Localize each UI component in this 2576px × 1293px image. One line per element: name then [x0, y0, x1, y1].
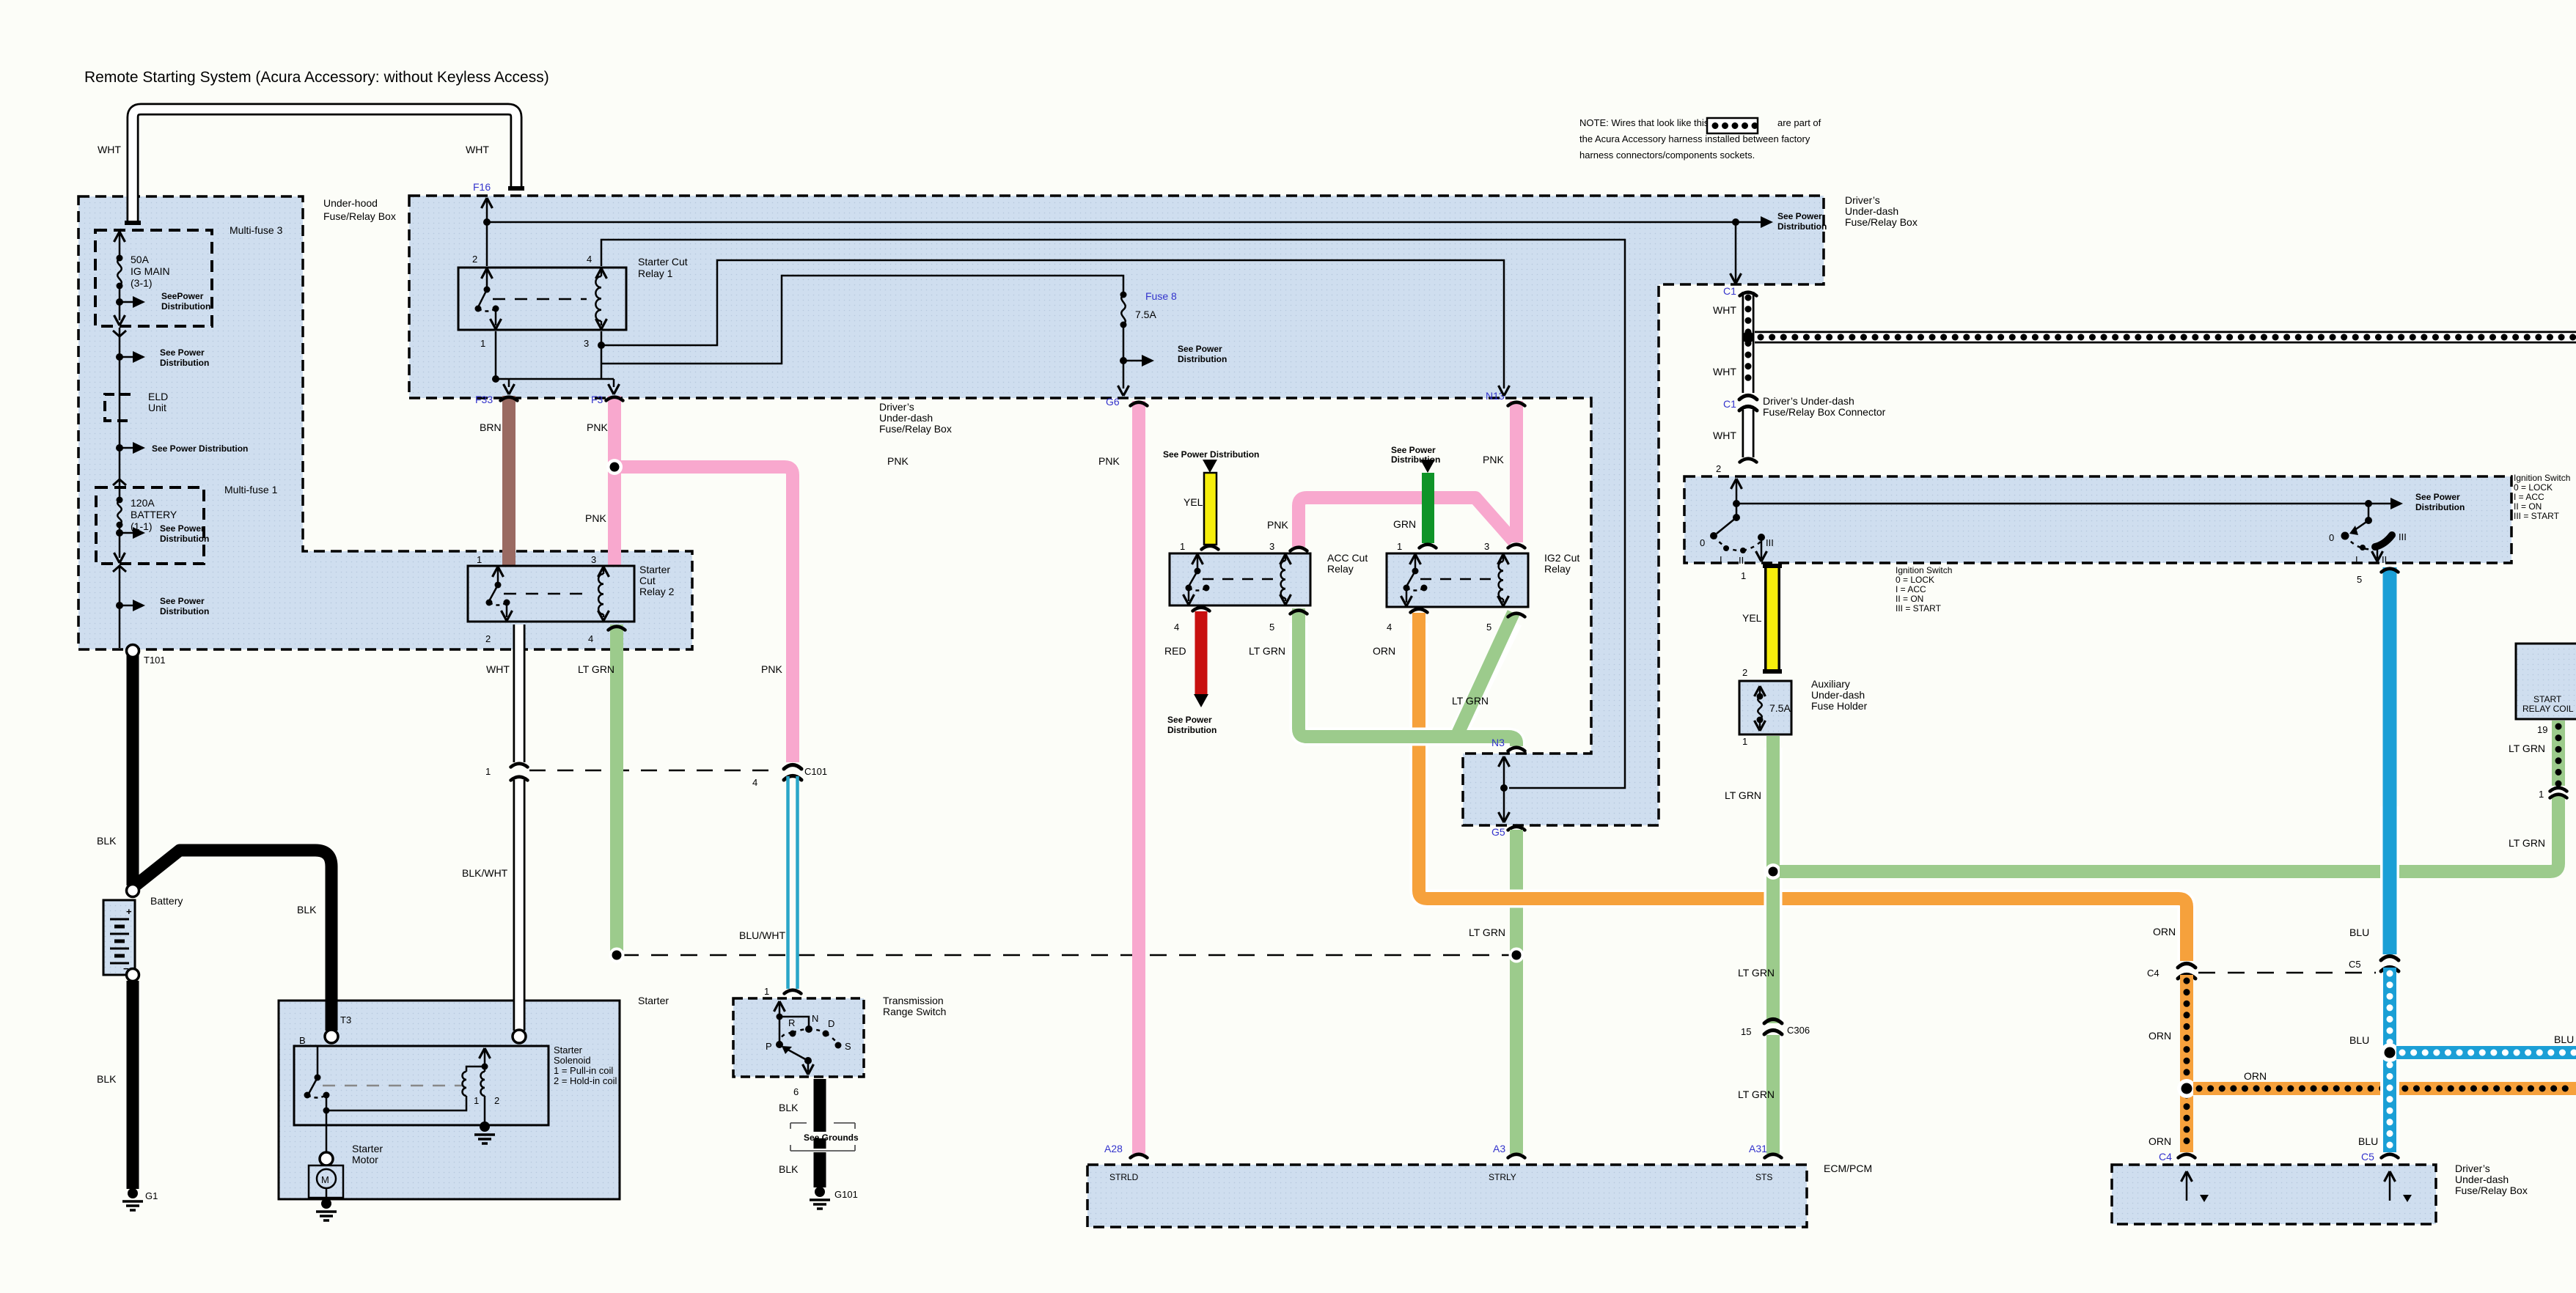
svg-text:NOTE: Wires that look like thi: NOTE: Wires that look like this [1579, 117, 1709, 128]
svg-text:ORN: ORN [2148, 1030, 2171, 1042]
svg-text:3: 3 [1484, 541, 1489, 552]
svg-text:T101: T101 [144, 655, 166, 666]
svg-text:II = ON: II = ON [1896, 594, 1923, 604]
wire BLU ignition switch pin 5 down to C5 [2349, 567, 2399, 954]
terminal T3 / B [325, 1030, 338, 1043]
svg-text:PNK: PNK [1483, 454, 1504, 465]
box: under-hood fuse/relay box (multi-fuse + starter cut relay 2 section) [78, 196, 692, 649]
svg-text:Range Switch: Range Switch [883, 1006, 946, 1017]
svg-text:G5: G5 [1491, 826, 1505, 838]
svg-text:1: 1 [1741, 570, 1746, 581]
svg-text:1 = Pull-in coil: 1 = Pull-in coil [554, 1065, 613, 1076]
svg-text:2: 2 [485, 633, 491, 644]
svg-text:2: 2 [472, 254, 477, 265]
svg-text:BLK: BLK [779, 1163, 799, 1175]
svg-text:C5: C5 [2349, 959, 2361, 970]
svg-text:ORN: ORN [2244, 1070, 2267, 1082]
svg-text:Fuse/Relay Box: Fuse/Relay Box [879, 423, 952, 435]
svg-text:See Grounds: See Grounds [804, 1132, 859, 1143]
svg-text:ORN: ORN [2153, 926, 2176, 937]
svg-text:See Power: See Power [160, 596, 205, 606]
wire BLK T101 to battery positive [97, 652, 133, 885]
svg-text:1: 1 [764, 986, 769, 997]
svg-text:WHT: WHT [466, 144, 489, 155]
svg-text:LT GRN: LT GRN [1738, 1088, 1775, 1100]
ELD unit [105, 391, 168, 422]
svg-text:II: II [1739, 555, 1744, 566]
svg-text:LT GRN: LT GRN [1452, 695, 1489, 707]
svg-text:III: III [2399, 531, 2407, 542]
svg-text:See Power: See Power [2415, 492, 2460, 502]
svg-text:B: B [299, 1035, 306, 1046]
svg-text:5: 5 [1486, 622, 1491, 633]
connector C5 (top) [2349, 957, 2399, 972]
svg-text:Under-dash: Under-dash [2455, 1174, 2509, 1185]
svg-text:F3: F3 [591, 394, 603, 405]
svg-text:0: 0 [2329, 532, 2334, 543]
svg-text:Distribution: Distribution [161, 301, 210, 312]
svg-text:A31: A31 [1749, 1143, 1767, 1154]
wire LT GRN ACC pin 5 + IG2 pin 5 junction to N3 [1249, 608, 1525, 751]
wire ORN dotted C4 to bottom box with junction [2148, 975, 2196, 1158]
svg-text:Relay: Relay [1327, 563, 1354, 575]
wire ORN IG2 pin 4 down and right to C4 [1373, 609, 2187, 961]
terminal T101 [127, 645, 139, 657]
svg-text:I = ACC: I = ACC [2514, 492, 2544, 502]
svg-text:3: 3 [591, 554, 596, 565]
svg-text:ORN: ORN [1373, 645, 1395, 657]
svg-text:BATTERY: BATTERY [131, 509, 177, 520]
svg-text:7.5A: 7.5A [1769, 702, 1791, 714]
box: starter [279, 1001, 620, 1199]
box: driver's under-dash fuse/relay box (bottom right) [2112, 1165, 2436, 1224]
svg-text:BLU: BLU [2358, 1135, 2378, 1147]
svg-text:LT GRN: LT GRN [1725, 789, 1761, 801]
ground at starter motor [321, 1198, 331, 1209]
svg-text:LT GRN: LT GRN [578, 663, 614, 675]
svg-text:C101: C101 [804, 766, 827, 777]
svg-text:2: 2 [494, 1095, 499, 1106]
relay: ACC cut relay [1170, 541, 1368, 633]
wire internal C1 drop [1731, 222, 1742, 284]
svg-text:Ignition Switch: Ignition Switch [2514, 473, 2570, 483]
svg-text:S: S [845, 1041, 851, 1052]
svg-text:BLU: BLU [2554, 1034, 2574, 1045]
svg-text:BLK/WHT: BLK/WHT [462, 867, 508, 879]
svg-text:15: 15 [1741, 1026, 1751, 1037]
svg-text:LT GRN: LT GRN [1469, 927, 1505, 938]
wire BLU/WHT C101 to transmission range switch pin 1 [739, 776, 801, 994]
svg-text:See Power: See Power [160, 347, 205, 358]
fuse 8 [1118, 292, 1228, 397]
wire BLU dotted horizontal from junction to right edge [2396, 1034, 2576, 1053]
svg-text:Solenoid: Solenoid [554, 1055, 591, 1066]
box: auxiliary under-dash fuse holder [1739, 681, 1791, 734]
svg-text:Multi-fuse 3: Multi-fuse 3 [230, 224, 283, 236]
svg-text:0 = LOCK: 0 = LOCK [1896, 575, 1934, 585]
wire WHT battery to F16 (top loop) [98, 109, 524, 225]
svg-text:(3-1): (3-1) [131, 277, 153, 289]
see grounds bracket [790, 1123, 859, 1151]
svg-text:Under-dash: Under-dash [879, 412, 933, 424]
wire WHT dotted C1 vertical (accessory harness) [1713, 292, 1757, 393]
svg-text:C4: C4 [2159, 1151, 2172, 1163]
svg-text:4: 4 [587, 254, 592, 265]
wire RED ACC cut relay pin 4 to see power distribution [1164, 608, 1210, 707]
svg-text:See Power: See Power [1391, 445, 1436, 455]
svg-text:LT GRN: LT GRN [2509, 837, 2545, 849]
svg-text:Relay 1: Relay 1 [638, 268, 673, 279]
svg-text:A3: A3 [1493, 1143, 1505, 1154]
ground G1 [122, 1188, 158, 1210]
svg-text:See Power Distribution: See Power Distribution [152, 443, 248, 454]
svg-text:PNK: PNK [1098, 455, 1120, 467]
svg-text:Under-dash: Under-dash [1811, 689, 1865, 701]
wire relay 1 pin 3 staircase to N13 [598, 260, 1510, 396]
wire relay 1 pin 4 to band down to N3/G5 box [601, 240, 1625, 788]
svg-text:BLU/WHT: BLU/WHT [739, 929, 785, 941]
svg-text:N3: N3 [1491, 737, 1505, 748]
wire YEL see power distribution feed to ACC cut relay pin 1 [1184, 460, 1219, 550]
wire BLK/WHT connector to starter solenoid terminal S [462, 777, 528, 1043]
svg-text:the Acura Accessory harness in: the Acura Accessory harness installed be… [1579, 133, 1810, 144]
svg-text:Transmission: Transmission [883, 995, 944, 1006]
wire PNK N13 to IG2 cut relay pin 3 [1483, 401, 1525, 542]
svg-text:BLU: BLU [2349, 927, 2369, 938]
svg-text:PNK: PNK [585, 512, 606, 524]
svg-text:Driver’s: Driver’s [2455, 1163, 2490, 1174]
svg-text:Starter: Starter [639, 564, 670, 575]
svg-text:Fuse/Relay Box: Fuse/Relay Box [323, 210, 396, 222]
connector C306 [1741, 1020, 1810, 1038]
box: transmission range switch [733, 998, 864, 1077]
svg-text:Fuse/Relay Box: Fuse/Relay Box [1845, 216, 1918, 228]
svg-text:STRLD: STRLD [1109, 1172, 1139, 1182]
svg-text:C5: C5 [2361, 1151, 2374, 1163]
svg-text:C4: C4 [2147, 968, 2159, 979]
svg-text:M: M [321, 1174, 329, 1185]
svg-text:See Power: See Power [1777, 211, 1822, 221]
svg-text:19: 19 [2537, 724, 2547, 735]
svg-text:III = START: III = START [2514, 511, 2560, 521]
svg-text:WHT: WHT [1713, 430, 1736, 441]
svg-text:Under-dash: Under-dash [1845, 205, 1898, 217]
svg-text:G101: G101 [834, 1189, 858, 1200]
wire LT GRN horizontal from junction to start relay coil pin 1 [1780, 795, 2567, 872]
svg-text:BLK: BLK [297, 904, 317, 916]
svg-text:See Power: See Power [160, 523, 205, 534]
svg-text:YEL: YEL [1742, 612, 1762, 624]
svg-text:Fuse/Relay Box: Fuse/Relay Box [2455, 1185, 2528, 1196]
wire LT GRN G5 to ECM A3 (STRLY) [1469, 827, 1525, 1158]
note text with accessory harness wire sample [1579, 117, 1821, 161]
svg-text:Distribution: Distribution [160, 534, 209, 544]
svg-text:F16: F16 [473, 181, 491, 193]
svg-text:I = ACC: I = ACC [1896, 584, 1926, 594]
svg-text:are part of: are part of [1777, 117, 1821, 128]
dashed line lower page break from relay2 LT GRN junction to STRLY wire junction [622, 954, 1511, 957]
svg-text:SeePower: SeePower [161, 291, 204, 301]
wire WHT dotted horizontal (accessory harness) to right edge [1742, 331, 2576, 343]
svg-text:BLK: BLK [97, 1073, 117, 1085]
ignition switch right contacts with key position [2329, 504, 2407, 565]
transmission range switch contacts [766, 1001, 851, 1075]
svg-text:Distribution: Distribution [2415, 502, 2465, 512]
svg-text:0 = LOCK: 0 = LOCK [2514, 482, 2553, 493]
svg-text:LT GRN: LT GRN [1738, 967, 1775, 979]
svg-text:1: 1 [1742, 736, 1747, 747]
wire YEL ignition switch pin 1 to aux fuse holder pin 2 [1742, 564, 1782, 673]
connector C101 [529, 765, 827, 789]
svg-text:LT GRN: LT GRN [2509, 743, 2545, 754]
svg-text:WHT: WHT [1713, 366, 1736, 377]
svg-text:Distribution: Distribution [1777, 221, 1827, 232]
svg-text:Driver’s: Driver’s [1845, 194, 1880, 206]
svg-text:PNK: PNK [1267, 519, 1288, 531]
svg-text:III = START: III = START [1896, 603, 1942, 614]
svg-text:C1: C1 [1723, 285, 1736, 297]
ground G101 [810, 1187, 858, 1209]
svg-text:Driver’s: Driver’s [879, 401, 914, 413]
wire ELD to multi-fuse 1 [113, 422, 248, 486]
ground at solenoid coil 2 [480, 1121, 490, 1132]
wire LT GRN aux fuse holder to junction, C306, ECM A31 (STS) [1725, 736, 1782, 1158]
svg-text:1: 1 [480, 338, 485, 349]
svg-text:IG MAIN: IG MAIN [131, 265, 170, 277]
wire BLK battery negative to G1 [97, 981, 133, 1189]
svg-text:PNK: PNK [761, 663, 782, 675]
svg-text:Ignition Switch: Ignition Switch [1896, 565, 1952, 575]
svg-text:2 = Hold-in coil: 2 = Hold-in coil [554, 1075, 617, 1086]
svg-text:50A: 50A [131, 254, 150, 265]
svg-text:Starter Cut: Starter Cut [638, 256, 688, 268]
relay: starter cut relay 2 [468, 554, 675, 644]
svg-text:WHT: WHT [486, 663, 510, 675]
svg-text:Remote Starting System (Acura: Remote Starting System (Acura Accessory:… [84, 69, 549, 86]
svg-text:4: 4 [588, 633, 593, 644]
svg-text:Relay: Relay [1544, 563, 1571, 575]
svg-text:1: 1 [474, 1095, 479, 1106]
svg-text:See Power Distribution: See Power Distribution [1163, 449, 1259, 460]
svg-text:A28: A28 [1104, 1143, 1123, 1154]
svg-text:4: 4 [752, 777, 757, 788]
svg-text:D: D [828, 1018, 834, 1029]
wire LT GRN starter cut relay 2 pin 4 down to dashed junction [578, 625, 625, 963]
svg-text:Fuse 8: Fuse 8 [1145, 290, 1177, 302]
svg-text:Distribution: Distribution [160, 606, 209, 616]
svg-text:WHT: WHT [98, 144, 121, 155]
svg-text:PNK: PNK [587, 421, 608, 433]
connector C1 (bottom) [1723, 396, 1757, 411]
svg-text:Distribution: Distribution [1167, 725, 1217, 735]
svg-text:120A: 120A [131, 497, 155, 509]
svg-text:III: III [1766, 537, 1774, 548]
svg-text:7.5A: 7.5A [1135, 309, 1156, 320]
svg-text:Auxiliary: Auxiliary [1811, 678, 1850, 690]
svg-text:IG2 Cut: IG2 Cut [1544, 552, 1579, 564]
box: ECM/PCM [1087, 1165, 1807, 1227]
wire BLK transmission range switch pin 6 to G101 [779, 1079, 820, 1187]
svg-text:R: R [788, 1017, 795, 1028]
svg-text:PNK: PNK [887, 455, 909, 467]
svg-text:LT GRN: LT GRN [1249, 645, 1285, 657]
wire LT GRN dotted start relay coil pin 19 [2509, 721, 2567, 800]
svg-text:3: 3 [584, 338, 589, 349]
svg-text:Motor: Motor [352, 1154, 378, 1165]
svg-text:2: 2 [1742, 667, 1747, 678]
svg-text:II: II [2382, 554, 2387, 565]
svg-text:4: 4 [1174, 622, 1179, 633]
wire ORN dotted horizontal from junction to right edge [2193, 1070, 2576, 1088]
box: start relay coil [2516, 644, 2576, 719]
svg-text:5: 5 [2357, 574, 2362, 585]
wire between multi-fuse 3 and ELD [113, 328, 209, 392]
svg-text:ACC Cut: ACC Cut [1327, 552, 1368, 564]
svg-text:Fuse/Relay Box Connector: Fuse/Relay Box Connector [1763, 406, 1886, 418]
svg-text:Driver’s Under-dash: Driver’s Under-dash [1763, 395, 1854, 407]
multi-fuse column (50A IG MAIN) [114, 232, 211, 325]
svg-text:Battery: Battery [150, 895, 183, 907]
svg-text:See Power: See Power [1167, 715, 1212, 725]
svg-text:C1: C1 [1723, 398, 1736, 410]
multi-fuse column (120A BATTERY) [114, 487, 210, 563]
box: multi-fuse 3 [95, 230, 212, 326]
svg-text:II = ON: II = ON [2514, 501, 2542, 512]
svg-text:3: 3 [1269, 541, 1274, 552]
svg-text:RED: RED [1164, 645, 1186, 657]
relay: IG2 cut relay [1387, 541, 1579, 633]
svg-text:WHT: WHT [1713, 304, 1736, 316]
wire relay 1 pins 1-3 to F33 F3 [492, 331, 620, 394]
starter motor [309, 1113, 343, 1199]
box: multi-fuse 1 [96, 487, 204, 564]
svg-text:ORN: ORN [2148, 1135, 2171, 1147]
svg-text:START: START [2533, 694, 2562, 704]
wire WHT C1 to ignition switch pin 2 [1713, 409, 1757, 474]
svg-text:ELD: ELD [148, 391, 168, 402]
wire BRN F33 to starter cut relay 2 pin 1 [480, 396, 518, 572]
svg-text:BLK: BLK [97, 835, 117, 847]
svg-text:Under-hood: Under-hood [323, 197, 378, 209]
connector C4 (top) [2147, 964, 2195, 979]
wire relay 1 pin 3 staircase to fuse 8 [601, 276, 1123, 364]
ignition switch left contacts [1700, 479, 2403, 566]
svg-text:Distribution: Distribution [1178, 354, 1227, 364]
wire GRN see power distribution feed to IG2 cut relay pin 1 [1393, 460, 1436, 548]
svg-text:Distribution: Distribution [1391, 454, 1440, 465]
wire PNK F3 to starter cut relay 2 pin 3 with branch to C101 [585, 396, 909, 762]
svg-text:BLK: BLK [779, 1102, 799, 1113]
svg-text:1: 1 [1180, 541, 1185, 552]
svg-text:I: I [2355, 554, 2358, 565]
wire BLU dotted C5 to bottom box with junction [2349, 968, 2399, 1158]
N3/G5 box internal arrow [1499, 756, 1510, 822]
svg-text:Starter: Starter [352, 1143, 383, 1154]
svg-text:0: 0 [1700, 537, 1705, 548]
svg-text:Cut: Cut [639, 575, 656, 586]
wire PNK G6 to ECM A28 (STRLD) [1098, 401, 1148, 1158]
svg-text:(1-1): (1-1) [131, 520, 153, 532]
svg-text:Unit: Unit [148, 402, 166, 413]
svg-text:5: 5 [1269, 622, 1274, 633]
svg-text:1: 1 [2539, 789, 2544, 800]
svg-text:F33: F33 [475, 394, 493, 405]
svg-text:T3: T3 [340, 1014, 351, 1025]
svg-text:1: 1 [477, 554, 482, 565]
wire PNK ACC cut relay pin 3 to IG2 cut relay pin 3 [1267, 498, 1525, 551]
svg-text:harness connectors/components: harness connectors/components sockets. [1579, 150, 1755, 161]
svg-text:1: 1 [485, 766, 491, 777]
svg-text:G6: G6 [1106, 396, 1120, 408]
svg-text:C306: C306 [1787, 1025, 1810, 1036]
svg-text:6: 6 [793, 1086, 799, 1097]
svg-text:4: 4 [1387, 622, 1392, 633]
wire multi-fuse 1 to T101 [113, 565, 209, 648]
svg-text:See Power: See Power [1178, 344, 1222, 354]
svg-text:+: + [126, 906, 132, 917]
svg-text:Distribution: Distribution [160, 358, 209, 368]
box: ignition switch [1684, 476, 2511, 563]
svg-text:G1: G1 [145, 1190, 158, 1201]
wire WHT starter cut relay 2 pin 2 to connector 1 [485, 625, 528, 777]
aux fuse holder fuse element [1755, 686, 1791, 731]
svg-text:Starter: Starter [638, 995, 669, 1006]
svg-text:STRLY: STRLY [1489, 1172, 1516, 1182]
starter solenoid box [294, 1046, 548, 1125]
svg-text:I: I [1720, 554, 1722, 565]
svg-text:BLU: BLU [2349, 1034, 2369, 1046]
svg-text:GRN: GRN [1393, 518, 1416, 530]
svg-text:Fuse Holder: Fuse Holder [1811, 700, 1868, 712]
svg-text:2: 2 [1716, 463, 1721, 474]
svg-text:RELAY COIL: RELAY COIL [2522, 704, 2574, 714]
svg-text:ECM/PCM: ECM/PCM [1824, 1163, 1872, 1174]
wire BLK battery positive branch to starter terminal T3 [136, 850, 331, 1031]
dashed connector line C4 to C5 [2198, 972, 2376, 974]
svg-text:1: 1 [1397, 541, 1402, 552]
svg-text:Relay 2: Relay 2 [639, 586, 675, 597]
bottom box internal arrows [2181, 1171, 2412, 1202]
wire F16 internal to relay 1 pin 2 with see power distribution branch [482, 198, 1827, 266]
svg-text:P: P [766, 1041, 772, 1052]
svg-text:N: N [812, 1013, 818, 1024]
svg-text:Starter: Starter [554, 1045, 583, 1056]
svg-text:BRN: BRN [480, 421, 502, 433]
relay: starter cut relay 1 [458, 254, 688, 349]
battery [103, 885, 183, 981]
svg-text:Multi-fuse 1: Multi-fuse 1 [224, 484, 278, 496]
svg-text:YEL: YEL [1184, 496, 1203, 508]
box: under-hood / driver's under-dash fuse/relay box (top) with band to N3-G5 box [409, 196, 1824, 825]
svg-text:STS: STS [1755, 1172, 1772, 1182]
